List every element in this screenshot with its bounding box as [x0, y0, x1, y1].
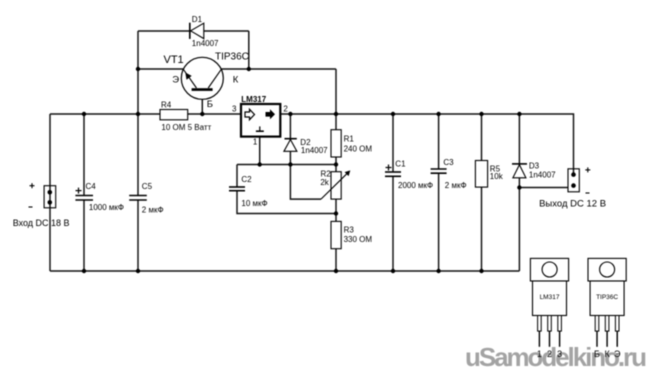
wire emitter: [138, 68, 184, 70]
node C1 bottom: [391, 269, 395, 273]
wire left rail vertical: [49, 114, 51, 271]
svg-text:C5: C5: [142, 182, 153, 191]
wire left vertical x138 lower (below C5): [137, 200, 139, 271]
wire D1 loop right vertical: [248, 31, 250, 69]
capacitor C5: [129, 182, 163, 214]
node base junction: [200, 112, 204, 116]
svg-text:1000 мкФ: 1000 мкФ: [89, 203, 124, 212]
node emitter-left junction: [136, 67, 140, 71]
svg-text:Э: Э: [614, 349, 621, 359]
wire C2 upper: [236, 165, 238, 188]
node R1 top: [334, 112, 338, 116]
node C3 top: [436, 112, 440, 116]
svg-text:1: 1: [537, 349, 542, 359]
svg-text:240 ОМ: 240 ОМ: [344, 144, 373, 153]
wire collector drop to rail: [335, 69, 337, 114]
node pin1 adj: [258, 162, 262, 166]
wire ADJ rail: [237, 164, 336, 166]
wire R3 bottom: [335, 249, 337, 271]
svg-text:1n4007: 1n4007: [529, 171, 556, 180]
output connector J2: [539, 167, 606, 209]
diode D2: [284, 138, 328, 155]
wire R1 bottom: [335, 157, 337, 165]
resistor R5: [475, 161, 503, 188]
wire LM317 pin1: [259, 137, 261, 165]
wire R5 lower: [481, 187, 483, 271]
svg-text:3: 3: [232, 105, 237, 114]
diode D1: [190, 15, 219, 48]
resistor R3: [331, 221, 372, 248]
wire bottom rail: [50, 270, 519, 272]
svg-text:C3: C3: [443, 158, 454, 167]
capacitor C1: [385, 160, 433, 191]
svg-text:2 мкФ: 2 мкФ: [142, 206, 164, 215]
node R2-R3 junction: [334, 211, 338, 215]
svg-text:Б: Б: [594, 349, 600, 359]
node R1-R2 junction: [334, 162, 338, 166]
svg-text:D3: D3: [529, 162, 540, 171]
svg-text:R4: R4: [161, 100, 172, 109]
package TIP36C TO-220: [588, 258, 626, 359]
wire C1 lower: [392, 176, 394, 271]
svg-text:К: К: [604, 349, 610, 359]
wire C2 lower and bottom link: [237, 191, 336, 214]
wire output minus: [519, 187, 568, 189]
input connector J1: [13, 183, 70, 228]
svg-text:330 ОМ: 330 ОМ: [344, 235, 373, 244]
wire input rail left segment: [50, 113, 160, 115]
wire R2 top: [335, 165, 337, 172]
wire C3 lower: [438, 173, 440, 271]
svg-text:LM317: LM317: [241, 95, 266, 104]
capacitor C4: [75, 182, 124, 212]
node C5 bottom: [136, 269, 140, 273]
svg-text:10 мкФ: 10 мкФ: [241, 199, 267, 208]
wire C3 upper: [438, 114, 440, 169]
wire R5 upper: [481, 114, 483, 161]
svg-text:TIP36C: TIP36C: [596, 294, 618, 301]
svg-text:3: 3: [557, 349, 562, 359]
wire C4 vertical upper: [83, 114, 85, 196]
wire base: [201, 91, 203, 115]
svg-text:LM317: LM317: [540, 294, 560, 301]
resistor R4: [160, 100, 212, 132]
wire R1 top: [335, 114, 337, 130]
svg-text:2: 2: [283, 104, 288, 113]
node C4 bottom: [82, 269, 86, 273]
svg-text:1n4007: 1n4007: [192, 39, 219, 48]
wire collector: [221, 68, 336, 70]
wire D2 vertical: [289, 114, 291, 165]
svg-text:C4: C4: [86, 182, 97, 191]
node D2 anode adj: [288, 162, 292, 166]
transistor VT1: [164, 51, 249, 110]
svg-text:1n4007: 1n4007: [301, 146, 328, 155]
node C1 top: [391, 112, 395, 116]
wire R3 top: [335, 214, 337, 222]
wire top loop D1 horizontal: [138, 30, 249, 32]
wire left vertical x138 upper: [137, 31, 139, 196]
node C3 bottom: [436, 269, 440, 273]
svg-text:1: 1: [253, 138, 258, 147]
capacitor C2: [229, 175, 268, 208]
svg-text:Б: Б: [207, 99, 213, 110]
svg-text:R3: R3: [344, 225, 355, 234]
wire R4 to LM317 pin3: [188, 113, 241, 115]
svg-text:D1: D1: [192, 15, 203, 24]
svg-text:TIP36C: TIP36C: [215, 51, 249, 62]
svg-text:VT1: VT1: [164, 54, 184, 66]
node D3 top: [517, 112, 521, 116]
node C5 top: [136, 112, 140, 116]
wire D3 vertical: [518, 114, 520, 271]
svg-text:Вход DC 18 В: Вход DC 18 В: [13, 218, 70, 228]
svg-text:10 ОМ 5 Ватт: 10 ОМ 5 Ватт: [161, 123, 211, 132]
node R5 top: [479, 112, 483, 116]
wire R2 bottom: [335, 199, 337, 213]
node dots: [82, 67, 522, 273]
svg-text:R1: R1: [344, 135, 355, 144]
svg-text:2: 2: [547, 349, 552, 359]
svg-text:C2: C2: [241, 175, 252, 184]
svg-text:Э: Э: [172, 75, 179, 86]
op-amp U1 LM317 regulator: [232, 95, 288, 146]
node C4 top: [82, 112, 86, 116]
node D3 anode: [517, 185, 521, 189]
node D2 top: [288, 112, 292, 116]
wire C1 upper: [392, 114, 394, 172]
package LM317 TO-220: [530, 258, 568, 359]
node D1 right junction: [247, 67, 251, 71]
capacitor C3: [431, 158, 467, 190]
svg-text:2k: 2k: [320, 178, 329, 187]
svg-text:Выход DC 12 В: Выход DC 12 В: [539, 199, 606, 210]
resistor R1: [331, 130, 372, 157]
wire C4 vertical lower: [83, 200, 85, 271]
diode D3: [512, 162, 556, 180]
node R5 bottom: [479, 269, 483, 273]
potentiometer R2: [320, 170, 350, 200]
wire R2 wiper link: [290, 165, 321, 200]
wire output rail: [280, 114, 573, 174]
node R3 bottom: [334, 269, 338, 273]
svg-text:C1: C1: [395, 160, 406, 169]
svg-text:10k: 10k: [490, 172, 504, 181]
svg-text:К: К: [233, 75, 239, 86]
svg-text:2000 мкФ: 2000 мкФ: [398, 181, 433, 190]
svg-text:2 мкФ: 2 мкФ: [445, 181, 467, 190]
